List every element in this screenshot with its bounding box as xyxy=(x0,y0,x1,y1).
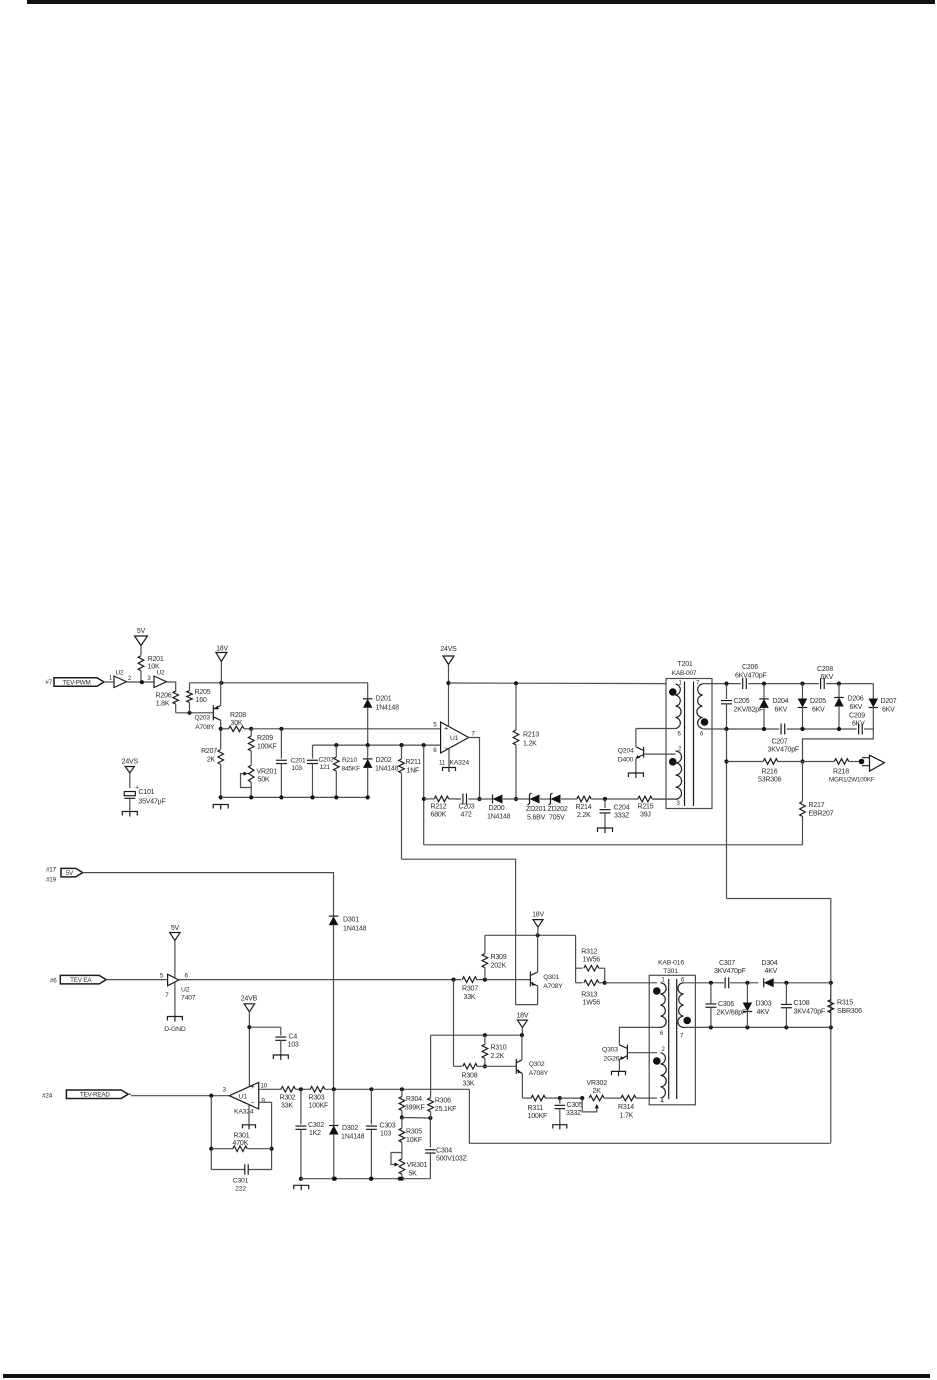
resistor R313 xyxy=(576,980,607,1007)
svg-text:5V: 5V xyxy=(66,870,74,877)
svg-text:R218: R218 xyxy=(833,769,849,776)
resistor R305 xyxy=(399,1118,422,1159)
svg-text:1.8K: 1.8K xyxy=(156,701,170,708)
svg-text:2.2K: 2.2K xyxy=(577,812,591,819)
svg-text:18V: 18V xyxy=(532,912,544,919)
buffer U2a xyxy=(114,670,127,688)
wire to T301 xyxy=(605,982,657,984)
wire HV top rail xyxy=(703,682,874,686)
T301 pin 1 xyxy=(662,978,666,984)
svg-text:1NF: 1NF xyxy=(407,768,420,775)
capacitor C205 xyxy=(721,684,763,729)
buffer U2b xyxy=(154,670,167,688)
svg-text:2KV/82pF: 2KV/82pF xyxy=(734,707,764,714)
T301 pin 7 xyxy=(680,1034,684,1040)
svg-text:R213: R213 xyxy=(523,732,539,739)
svg-text:4KV: 4KV xyxy=(765,968,778,975)
svg-text:KAB-007: KAB-007 xyxy=(672,670,697,677)
capacitor C201 xyxy=(276,729,306,800)
resistor R216 xyxy=(758,759,834,784)
capacitor C303 xyxy=(366,1089,396,1180)
svg-text:U2: U2 xyxy=(157,670,165,677)
svg-text:5.6BV: 5.6BV xyxy=(527,815,546,822)
svg-text:R210: R210 xyxy=(342,757,357,764)
svg-text:222: 222 xyxy=(235,1186,246,1193)
resistor R210 xyxy=(334,743,361,800)
svg-text:D205: D205 xyxy=(810,698,826,705)
pin 3 xyxy=(147,675,151,682)
svg-text:C205: C205 xyxy=(734,698,750,705)
svg-text:470K: 470K xyxy=(233,1140,249,1147)
svg-text:9: 9 xyxy=(262,1098,266,1105)
svg-text:3: 3 xyxy=(223,1087,227,1094)
transformer T201 core xyxy=(685,682,694,807)
wire xyxy=(560,1096,585,1100)
svg-text:7: 7 xyxy=(165,992,169,999)
svg-text:2: 2 xyxy=(128,675,132,682)
potentiometer VR301 xyxy=(391,1153,428,1181)
svg-text:D206: D206 xyxy=(848,696,864,703)
svg-text:7: 7 xyxy=(472,731,476,738)
capacitor C208 xyxy=(817,666,834,689)
svg-text:D201: D201 xyxy=(376,696,392,703)
resistor R213 xyxy=(513,681,539,801)
T201 pin 1 xyxy=(679,681,683,687)
svg-text:33K: 33K xyxy=(281,1103,293,1110)
diode D200 xyxy=(480,795,530,821)
pin 1 xyxy=(109,675,113,682)
transistor Q204 xyxy=(618,729,676,773)
svg-text:A708Y: A708Y xyxy=(195,724,215,731)
svg-text:6KV: 6KV xyxy=(852,721,865,728)
wire R304 link xyxy=(402,1116,433,1120)
svg-text:6: 6 xyxy=(700,732,704,738)
resistor R214 xyxy=(576,796,639,819)
resistor R311 xyxy=(522,1095,562,1120)
svg-text:T201: T201 xyxy=(677,661,692,668)
svg-text:C204: C204 xyxy=(614,805,630,812)
svg-text:399KF: 399KF xyxy=(405,1105,425,1112)
svg-text:103: 103 xyxy=(292,765,303,772)
svg-text:5V: 5V xyxy=(137,628,146,635)
svg-text:2K: 2K xyxy=(207,757,216,764)
resistor R301 xyxy=(211,1133,271,1152)
svg-text:100KF: 100KF xyxy=(528,1113,548,1120)
svg-text:D200: D200 xyxy=(489,805,505,812)
resistor R209 xyxy=(248,729,276,765)
svg-text:R205: R205 xyxy=(195,689,211,696)
svg-text:R311: R311 xyxy=(528,1105,544,1112)
capacitor C207 xyxy=(768,724,799,754)
svg-text:C206: C206 xyxy=(742,664,758,671)
T301 pin 6b xyxy=(681,978,685,984)
svg-text:1W56: 1W56 xyxy=(583,1000,601,1007)
svg-text:C201: C201 xyxy=(291,758,306,765)
resistor R302 xyxy=(280,1087,311,1110)
svg-text:472: 472 xyxy=(461,812,472,819)
power 18V Q301 xyxy=(532,912,544,936)
capacitor C206 xyxy=(735,664,766,689)
T301 winding C xyxy=(678,983,691,1028)
svg-text:2K: 2K xyxy=(593,1088,602,1095)
capacitor C202 xyxy=(307,745,334,799)
svg-text:A708Y: A708Y xyxy=(529,1070,549,1077)
wire HV mid rail xyxy=(703,727,874,731)
wire feedback xyxy=(422,743,426,845)
svg-text:C203: C203 xyxy=(459,804,475,811)
ground Q303 xyxy=(612,1071,626,1076)
svg-text:D400: D400 xyxy=(618,757,634,764)
resistor R205 xyxy=(187,683,211,713)
resistor R211 xyxy=(399,743,422,859)
svg-text:25.1KF: 25.1KF xyxy=(435,1106,456,1113)
wire 24V rail xyxy=(449,682,667,685)
svg-text:35V47µF: 35V47µF xyxy=(138,799,165,806)
node #6 TEV EA xyxy=(50,975,106,984)
svg-text:6: 6 xyxy=(433,747,437,754)
svg-text:3: 3 xyxy=(147,675,151,682)
svg-text:C4: C4 xyxy=(289,1034,298,1041)
svg-text:R301: R301 xyxy=(234,1133,250,1140)
T301 winding A xyxy=(653,983,666,1028)
transformer T301 box xyxy=(649,975,695,1105)
svg-text:C202: C202 xyxy=(319,757,334,764)
capacitor C101 xyxy=(122,785,165,817)
svg-text:C306: C306 xyxy=(718,1001,734,1008)
potentiometer VR302 xyxy=(582,1080,621,1112)
svg-text:6KV: 6KV xyxy=(812,707,825,714)
resistor R312 xyxy=(576,949,605,983)
transformer T201 box xyxy=(666,679,712,809)
svg-text:R216: R216 xyxy=(762,769,778,776)
svg-text:33K: 33K xyxy=(463,1081,475,1088)
ground Q204 xyxy=(628,773,643,778)
svg-text:D202: D202 xyxy=(376,757,392,764)
transistor Q302 xyxy=(516,1035,548,1098)
capacitor C204 xyxy=(598,799,631,833)
svg-text:103: 103 xyxy=(288,1042,299,1049)
svg-text:KAB-016: KAB-016 xyxy=(658,960,684,967)
svg-text:R209: R209 xyxy=(257,735,273,742)
T301 winding B xyxy=(653,1053,666,1098)
svg-text:Q301: Q301 xyxy=(543,974,559,981)
svg-text:#7: #7 xyxy=(45,679,52,686)
svg-text:C302: C302 xyxy=(308,1122,324,1129)
op-amp U1 xyxy=(433,722,475,773)
svg-text:2: 2 xyxy=(662,1047,666,1053)
resistor R307 xyxy=(462,977,530,1001)
buffer U2 7407 xyxy=(160,973,196,1002)
svg-text:500V103Z: 500V103Z xyxy=(436,1156,468,1163)
svg-text:#17: #17 xyxy=(46,867,57,874)
svg-text:5: 5 xyxy=(433,722,437,729)
svg-text:6KV: 6KV xyxy=(882,707,895,714)
svg-text:202K: 202K xyxy=(491,963,507,970)
T201 winding B xyxy=(669,751,682,799)
diode D303 xyxy=(743,983,772,1028)
svg-text:103: 103 xyxy=(380,1131,391,1138)
wire Q301 rail xyxy=(485,933,576,937)
svg-text:R307: R307 xyxy=(462,986,478,993)
svg-text:KA324: KA324 xyxy=(234,1109,254,1116)
transformer T301 label xyxy=(658,960,684,976)
svg-text:A708Y: A708Y xyxy=(543,983,563,990)
svg-text:3: 3 xyxy=(677,801,681,807)
T201 pin 3 xyxy=(677,801,681,807)
svg-text:4: 4 xyxy=(661,1099,665,1105)
svg-text:18V: 18V xyxy=(216,646,228,653)
zener ZD202 xyxy=(548,793,578,822)
svg-text:R304: R304 xyxy=(406,1096,422,1103)
svg-text:D-GND: D-GND xyxy=(164,1026,186,1033)
svg-text:TEV-READ: TEV-READ xyxy=(80,1092,111,1099)
svg-text:1N4148: 1N4148 xyxy=(343,926,367,933)
svg-text:D304: D304 xyxy=(762,960,778,967)
svg-text:6KV: 6KV xyxy=(850,704,863,711)
op-amp U1 KA324 xyxy=(229,1082,267,1130)
svg-text:R309: R309 xyxy=(491,954,507,961)
svg-text:R315: R315 xyxy=(837,1000,853,1007)
svg-text:6: 6 xyxy=(678,732,682,738)
svg-text:5: 5 xyxy=(160,973,164,980)
svg-text:U1: U1 xyxy=(239,1094,248,1101)
T201 winding A xyxy=(669,684,681,729)
resistor R217 xyxy=(800,762,834,845)
svg-text:ZD201: ZD201 xyxy=(526,806,546,813)
svg-text:R214: R214 xyxy=(576,804,592,811)
svg-text:R313: R313 xyxy=(581,992,597,999)
resistor R208 xyxy=(221,712,254,732)
svg-text:MGR1/2W100KF: MGR1/2W100KF xyxy=(829,777,875,784)
svg-text:R310: R310 xyxy=(491,1045,507,1052)
diode D202 xyxy=(363,745,399,799)
svg-text:10: 10 xyxy=(261,1083,268,1090)
wire op-amp + input xyxy=(251,727,440,731)
svg-text:+: + xyxy=(251,1082,256,1091)
resistor R212 xyxy=(424,796,461,818)
svg-text:R212: R212 xyxy=(431,804,447,811)
wire xyxy=(167,682,176,692)
svg-text:1N4148: 1N4148 xyxy=(376,705,400,712)
resistor R206 xyxy=(156,691,179,713)
svg-text:24VB: 24VB xyxy=(241,996,258,1003)
svg-text:−: − xyxy=(251,1098,256,1107)
power 18V Q302 xyxy=(516,1013,528,1036)
svg-text:R201: R201 xyxy=(148,656,164,663)
svg-text:ZD202: ZD202 xyxy=(548,806,568,813)
diode D205 xyxy=(798,684,826,729)
wire xyxy=(106,979,167,981)
svg-text:C207: C207 xyxy=(772,739,788,746)
capacitor C4 xyxy=(249,1027,298,1060)
svg-text:6: 6 xyxy=(660,1031,664,1037)
svg-text:160: 160 xyxy=(196,697,207,704)
resistor R304 xyxy=(399,1089,424,1119)
svg-text:T301: T301 xyxy=(663,968,678,975)
svg-text:VR302: VR302 xyxy=(587,1080,608,1087)
wire U1 output xyxy=(469,738,482,802)
wire xyxy=(128,1087,229,1098)
svg-text:50K: 50K xyxy=(258,777,270,784)
svg-text:5K: 5K xyxy=(408,1171,417,1178)
svg-text:1W56: 1W56 xyxy=(583,957,601,964)
svg-text:6KV: 6KV xyxy=(821,674,834,681)
svg-text:D303: D303 xyxy=(756,1001,772,1008)
svg-text:1: 1 xyxy=(109,675,113,682)
diode D304 xyxy=(762,960,831,987)
capacitor C302 xyxy=(295,1089,324,1180)
svg-text:4KV: 4KV xyxy=(757,1009,770,1016)
T201 pin 6a xyxy=(678,732,682,738)
wire xyxy=(219,727,223,731)
svg-text:R211: R211 xyxy=(406,759,422,766)
capacitor C305 xyxy=(553,1098,583,1129)
wire op-amp2 + input xyxy=(259,1088,282,1090)
wire 18V rail2 xyxy=(431,1033,524,1037)
diode D207 xyxy=(869,684,897,729)
svg-text:R206: R206 xyxy=(156,693,172,700)
resistor R315 xyxy=(828,983,862,1028)
wire R312 branch xyxy=(575,935,577,983)
svg-text:D301: D301 xyxy=(343,917,359,924)
svg-text:R308: R308 xyxy=(462,1073,478,1080)
svg-text:R215: R215 xyxy=(638,804,654,811)
capacitor C306 xyxy=(705,983,746,1028)
svg-text:R314: R314 xyxy=(618,1104,634,1111)
svg-text:2KV/68pF: 2KV/68pF xyxy=(717,1010,747,1017)
svg-text:R306: R306 xyxy=(435,1098,451,1105)
svg-text:121: 121 xyxy=(320,764,331,771)
svg-text:U1: U1 xyxy=(450,735,459,742)
T201 pin 7 xyxy=(696,681,700,687)
svg-text:2.2K: 2.2K xyxy=(491,1053,505,1060)
svg-text:333Z: 333Z xyxy=(566,1110,582,1117)
connector HV xyxy=(859,755,885,771)
svg-text:33K: 33K xyxy=(464,994,476,1001)
svg-text:2G26: 2G26 xyxy=(604,1056,620,1063)
svg-text:C209: C209 xyxy=(849,713,865,720)
svg-text:6: 6 xyxy=(185,973,189,980)
diode D302 xyxy=(329,1089,365,1180)
wire T301 out bottom xyxy=(684,1025,831,1029)
svg-text:705V: 705V xyxy=(549,815,565,822)
T301 pin 4 xyxy=(661,1099,665,1105)
svg-text:C208: C208 xyxy=(817,666,833,673)
svg-text:R305: R305 xyxy=(406,1129,422,1136)
svg-text:D204: D204 xyxy=(773,698,789,705)
svg-text:333Z: 333Z xyxy=(614,813,630,820)
capacitor C203 xyxy=(459,794,480,819)
node #7 TEV-PWM xyxy=(45,678,104,687)
wire R303 to rail xyxy=(469,1089,830,1143)
resistor R215 xyxy=(638,796,676,818)
svg-text:TEV EA: TEV EA xyxy=(70,977,92,984)
svg-text:24VS: 24VS xyxy=(440,646,457,653)
svg-text:#19: #19 xyxy=(46,877,57,884)
transformer T201 label xyxy=(672,661,697,677)
wire xyxy=(127,680,155,684)
svg-text:R312: R312 xyxy=(581,949,597,956)
power 18V xyxy=(216,646,229,683)
svg-text:Q302: Q302 xyxy=(529,1061,545,1068)
wire feedback R301 xyxy=(209,1096,274,1170)
wire R211 run xyxy=(402,859,516,1004)
wire xyxy=(367,683,369,699)
T201 pin 2 xyxy=(678,747,682,753)
svg-text:#24: #24 xyxy=(42,1093,53,1100)
transistor Q203 xyxy=(195,683,221,749)
wire xyxy=(104,681,114,683)
svg-text:TEV-PWM: TEV-PWM xyxy=(63,679,91,686)
transistor Q303 xyxy=(602,1027,661,1071)
svg-text:3KV470pF: 3KV470pF xyxy=(768,747,799,754)
capacitor C209 xyxy=(849,713,865,735)
wire 18V rail xyxy=(190,681,369,685)
svg-text:KA324: KA324 xyxy=(450,760,470,767)
zener ZD201 xyxy=(526,793,550,822)
resistor R306 xyxy=(428,1035,456,1147)
wire TEV EA run xyxy=(179,978,462,982)
wire T201-A bottom xyxy=(636,728,676,730)
transistor Q301 xyxy=(516,935,564,1004)
wire R216 rail xyxy=(724,729,804,899)
node #17 #19 5V xyxy=(46,867,83,884)
diode D206 xyxy=(834,684,863,729)
svg-text:6KV470pF: 6KV470pF xyxy=(735,673,766,680)
resistor R303 xyxy=(309,1087,470,1110)
svg-text:1.2K: 1.2K xyxy=(523,741,537,748)
svg-text:1.7K: 1.7K xyxy=(620,1113,634,1120)
capacitor C108 xyxy=(781,983,825,1028)
svg-text:C301: C301 xyxy=(233,1178,249,1185)
wire T301 out top xyxy=(684,981,759,985)
wire feedback bottom xyxy=(424,844,803,846)
svg-text:D302: D302 xyxy=(342,1125,358,1132)
power 24VS xyxy=(440,646,457,726)
svg-text:6KV: 6KV xyxy=(775,707,788,714)
wire HV out xyxy=(803,729,874,762)
svg-text:Q203: Q203 xyxy=(195,715,211,722)
top border rule xyxy=(27,0,935,4)
power 24VS left xyxy=(122,759,139,789)
power 24VB xyxy=(241,996,258,1087)
potentiometer VR201 xyxy=(241,765,278,799)
svg-text:EBR207: EBR207 xyxy=(809,811,834,818)
svg-text:C108: C108 xyxy=(794,1000,810,1007)
ground xyxy=(213,795,228,809)
svg-text:R217: R217 xyxy=(809,802,825,809)
diode D301 xyxy=(329,916,367,1089)
power 5V xyxy=(135,628,148,655)
svg-text:5V: 5V xyxy=(171,925,180,932)
resistor R310 xyxy=(482,1035,507,1068)
svg-text:1K2: 1K2 xyxy=(309,1130,321,1137)
resistor R207 xyxy=(201,748,223,797)
wire T201 pin3 xyxy=(652,798,675,800)
wire op-amp - input xyxy=(313,744,441,746)
svg-text:100KF: 100KF xyxy=(309,1103,329,1110)
capacitor C307 xyxy=(714,960,745,988)
svg-text:U2: U2 xyxy=(181,987,190,994)
T201 pin 6b xyxy=(700,732,704,738)
svg-text:24VS: 24VS xyxy=(122,759,139,766)
wire to lower right xyxy=(727,899,833,1143)
svg-text:7: 7 xyxy=(680,1034,684,1040)
svg-text:R208: R208 xyxy=(230,712,246,719)
svg-text:C305: C305 xyxy=(567,1102,583,1109)
svg-text:1N4148: 1N4148 xyxy=(375,766,399,773)
diode D204 xyxy=(759,684,788,729)
